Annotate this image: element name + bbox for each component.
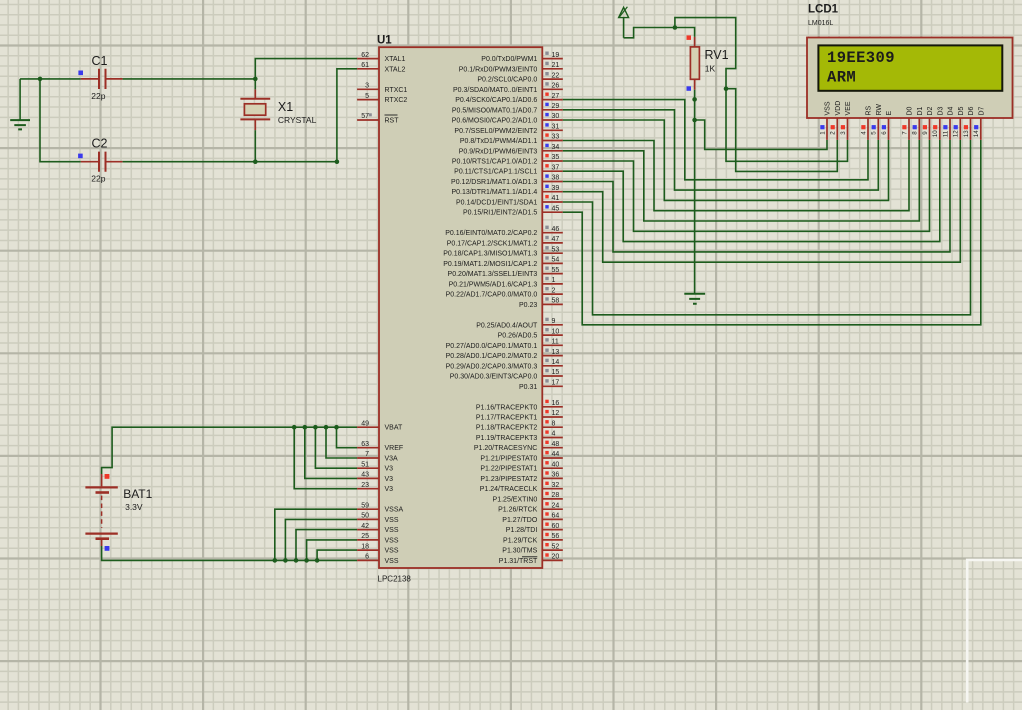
svg-text:13: 13 bbox=[552, 349, 560, 356]
svg-text:14: 14 bbox=[552, 359, 560, 366]
svg-text:8: 8 bbox=[552, 420, 556, 427]
node: crystal bottom junction bbox=[253, 159, 258, 164]
crystal X1 bbox=[240, 89, 316, 130]
svg-text:P1.18/TRACEPKT2: P1.18/TRACEPKT2 bbox=[476, 425, 538, 432]
svg-text:P0.2/SCL0/CAP0.0: P0.2/SCL0/CAP0.0 bbox=[477, 77, 537, 84]
svg-text:RST: RST bbox=[385, 118, 400, 125]
svg-text:11: 11 bbox=[552, 339, 559, 346]
wire: U1 row 6 to LCD E bbox=[563, 120, 889, 200]
svg-text:P1.30/TMS: P1.30/TMS bbox=[502, 548, 537, 555]
svg-text:58: 58 bbox=[552, 298, 560, 305]
svg-text:P0.3/SDA0/MAT0..0/EINT1: P0.3/SDA0/MAT0..0/EINT1 bbox=[453, 87, 537, 94]
svg-text:49: 49 bbox=[361, 420, 369, 427]
svg-text:P0.6/MOSI0/CAP0.2/AD1.0: P0.6/MOSI0/CAP0.2/AD1.0 bbox=[452, 118, 538, 125]
svg-text:61: 61 bbox=[361, 62, 369, 69]
svg-text:20: 20 bbox=[552, 554, 560, 561]
svg-text:16: 16 bbox=[552, 400, 560, 407]
svg-text:BAT1: BAT1 bbox=[123, 487, 152, 501]
svg-text:27: 27 bbox=[552, 93, 560, 100]
svg-text:P0.25/AD0.4/AOUT: P0.25/AD0.4/AOUT bbox=[476, 322, 538, 329]
svg-text:RS: RS bbox=[866, 105, 873, 115]
wire: tap to left pin row 38 bbox=[337, 427, 358, 448]
svg-text:P0.9/RxD1/PWM6/EINT3: P0.9/RxD1/PWM6/EINT3 bbox=[459, 148, 538, 155]
svg-text:64: 64 bbox=[552, 513, 560, 520]
svg-text:60: 60 bbox=[552, 523, 560, 530]
svg-text:48: 48 bbox=[552, 441, 560, 448]
svg-text:D6: D6 bbox=[968, 106, 975, 115]
svg-text:9: 9 bbox=[922, 131, 929, 135]
svg-text:D1: D1 bbox=[917, 106, 924, 115]
svg-text:P0.17/CAP1.2/SCK1/MAT1.2: P0.17/CAP1.2/SCK1/MAT1.2 bbox=[447, 240, 538, 247]
svg-text:P0.23: P0.23 bbox=[519, 302, 537, 309]
svg-text:ARM: ARM bbox=[827, 69, 856, 87]
capacitor C1 bbox=[78, 54, 122, 101]
svg-text:10: 10 bbox=[932, 130, 939, 137]
wire: tap to left pin row 41 bbox=[305, 427, 357, 478]
svg-text:P0.0/TxD0/PWM1: P0.0/TxD0/PWM1 bbox=[481, 56, 537, 63]
svg-text:50: 50 bbox=[361, 513, 369, 520]
junction on VBAT rail bbox=[303, 425, 308, 430]
svg-text:U1: U1 bbox=[377, 34, 392, 46]
node: XTAL2 junction on C2 wire bbox=[335, 159, 340, 164]
svg-text:10: 10 bbox=[552, 328, 560, 335]
svg-text:P0.18/CAP1.3/MISO1/MAT1.3: P0.18/CAP1.3/MISO1/MAT1.3 bbox=[443, 251, 537, 258]
svg-text:57: 57 bbox=[361, 113, 369, 120]
svg-text:XTAL2: XTAL2 bbox=[385, 66, 406, 73]
svg-text:62: 62 bbox=[361, 52, 369, 59]
svg-text:11: 11 bbox=[942, 130, 949, 137]
svg-text:30: 30 bbox=[552, 113, 560, 120]
svg-text:P0.10/RTS1/CAP1.0/AD1.2: P0.10/RTS1/CAP1.0/AD1.2 bbox=[452, 159, 538, 166]
wire: VBAT net from battery + to pin 49 with taps bbox=[102, 427, 358, 474]
wire: tap to left pin row 39 bbox=[326, 427, 357, 458]
junction on VSS rail bbox=[294, 558, 299, 563]
svg-text:VSS: VSS bbox=[825, 101, 832, 115]
svg-text:13: 13 bbox=[963, 130, 970, 137]
svg-text:36: 36 bbox=[552, 472, 560, 479]
svg-text:P0.22/AD1.7/CAP0.0/MAT0.0: P0.22/AD1.7/CAP0.0/MAT0.0 bbox=[446, 292, 538, 299]
svg-text:RTXC2: RTXC2 bbox=[385, 97, 408, 104]
svg-text:12: 12 bbox=[953, 130, 960, 137]
svg-text:32: 32 bbox=[552, 482, 560, 489]
wire: VSS net from battery - to pin 6 with taps bbox=[102, 546, 358, 560]
svg-text:P0.27/AD0.0/CAP0.1/MAT0.1: P0.27/AD0.0/CAP0.1/MAT0.1 bbox=[446, 343, 538, 350]
svg-text:2: 2 bbox=[552, 287, 556, 294]
svg-text:21: 21 bbox=[552, 62, 560, 69]
svg-text:47: 47 bbox=[552, 236, 560, 243]
wire: tap to left pin row 42 bbox=[294, 427, 357, 489]
svg-text:15: 15 bbox=[552, 369, 560, 376]
svg-text:39: 39 bbox=[552, 185, 560, 192]
svg-text:P1.28/TDI: P1.28/TDI bbox=[506, 527, 538, 534]
svg-text:P1.29/TCK: P1.29/TCK bbox=[503, 537, 538, 544]
wire: VCC rail to RV1 top bbox=[624, 28, 695, 38]
svg-text:D3: D3 bbox=[938, 106, 945, 115]
battery BAT1 3.3V bbox=[85, 474, 152, 551]
svg-text:22p: 22p bbox=[91, 174, 105, 184]
svg-text:18: 18 bbox=[361, 543, 369, 550]
junction on VBAT rail bbox=[324, 425, 329, 430]
svg-text:35: 35 bbox=[552, 154, 560, 161]
wire: RV1 bottom to ground bbox=[694, 90, 696, 294]
svg-text:29: 29 bbox=[552, 103, 560, 110]
svg-text:V3: V3 bbox=[385, 476, 394, 483]
svg-text:P0.31: P0.31 bbox=[519, 384, 537, 391]
svg-text:8: 8 bbox=[912, 131, 919, 135]
svg-text:VBAT: VBAT bbox=[385, 425, 403, 432]
wire: junction down to C2 left bbox=[40, 79, 81, 162]
svg-text:RW: RW bbox=[876, 104, 883, 116]
svg-text:LM016L: LM016L bbox=[808, 20, 833, 27]
junction on VBAT rail bbox=[334, 425, 339, 430]
svg-text:19: 19 bbox=[552, 52, 560, 59]
svg-text:VEE: VEE bbox=[845, 101, 852, 115]
wire: tap to LCD pin 1 VSS bbox=[695, 120, 827, 149]
wire: VEE branch (LCD pin 3) bbox=[726, 89, 848, 162]
svg-text:26: 26 bbox=[552, 83, 560, 90]
svg-text:4: 4 bbox=[860, 131, 867, 135]
svg-text:P0.30/AD0.3/EINT3/CAP0.0: P0.30/AD0.3/EINT3/CAP0.0 bbox=[450, 374, 538, 381]
wire: crystal bottom to C2 net bbox=[254, 130, 256, 162]
wire: U1 row 14 to LCD D6 bbox=[563, 140, 971, 315]
node: crystal top junction bbox=[253, 77, 258, 82]
svg-text:X1: X1 bbox=[278, 100, 293, 114]
junction on VSS rail bbox=[315, 558, 320, 563]
sheet border (white) bbox=[967, 560, 1022, 703]
wire: tap to left pin row 46 bbox=[296, 530, 357, 561]
svg-text:45: 45 bbox=[552, 205, 560, 212]
svg-text:V3: V3 bbox=[385, 466, 394, 473]
svg-text:D2: D2 bbox=[927, 106, 934, 115]
wire: XTAL1 net (pin 62 to crystal top / C1) bbox=[255, 59, 357, 90]
svg-text:40: 40 bbox=[552, 461, 560, 468]
svg-text:14: 14 bbox=[973, 130, 980, 137]
svg-text:22: 22 bbox=[552, 72, 560, 79]
svg-text:P0.26/AD0.5: P0.26/AD0.5 bbox=[498, 333, 538, 340]
svg-text:P0.28/AD0.1/CAP0.2/MAT0.2: P0.28/AD0.1/CAP0.2/MAT0.2 bbox=[446, 353, 538, 360]
svg-text:P0.29/AD0.2/CAP0.3/MAT0.3: P0.29/AD0.2/CAP0.3/MAT0.3 bbox=[446, 363, 538, 370]
svg-text:VSS: VSS bbox=[385, 517, 399, 524]
wire: tap to left pin row 44 bbox=[275, 509, 357, 560]
svg-text:VSS: VSS bbox=[385, 548, 399, 555]
wire: XTAL2 net (pin 61 to C2 net) bbox=[337, 69, 357, 162]
svg-text:41: 41 bbox=[552, 195, 560, 202]
svg-text:P0.20/MAT1.3/SSEL1/EINT3: P0.20/MAT1.3/SSEL1/EINT3 bbox=[448, 271, 538, 278]
svg-text:51: 51 bbox=[361, 461, 369, 468]
svg-text:P0.8/TxD1/PWM4/AD1.1: P0.8/TxD1/PWM4/AD1.1 bbox=[460, 138, 538, 145]
svg-text:3: 3 bbox=[365, 83, 369, 90]
U1 right pins: stubs, numbers, state squares, names bbox=[443, 52, 563, 565]
svg-text:7: 7 bbox=[365, 451, 369, 458]
junction on VBAT rail bbox=[313, 425, 318, 430]
wire: U1 row 11 to LCD D3 bbox=[563, 140, 940, 242]
svg-text:P0.19/MAT1.2/MOSI1/CAP1.2: P0.19/MAT1.2/MOSI1/CAP1.2 bbox=[443, 261, 537, 268]
LCD1 pins: stubs, rotated names, numbers, state squares bbox=[819, 101, 985, 140]
svg-text:P0.13/DTR1/MAT1.1/AD1.4: P0.13/DTR1/MAT1.1/AD1.4 bbox=[451, 189, 537, 196]
junction on VBAT rail bbox=[292, 425, 297, 430]
svg-text:43: 43 bbox=[361, 472, 369, 479]
svg-text:54: 54 bbox=[552, 257, 560, 264]
svg-text:28: 28 bbox=[552, 492, 560, 499]
svg-text:P1.19/TRACEPKT3: P1.19/TRACEPKT3 bbox=[476, 435, 538, 442]
svg-text:2: 2 bbox=[830, 131, 837, 135]
svg-text:44: 44 bbox=[552, 451, 560, 458]
svg-text:P1.20/TRACESYNC: P1.20/TRACESYNC bbox=[474, 445, 537, 452]
svg-text:VSS: VSS bbox=[385, 537, 399, 544]
wire: U1 row 9 to LCD D1 bbox=[563, 140, 920, 221]
svg-text:53: 53 bbox=[552, 246, 560, 253]
svg-text:P0.21/PWM5/AD1.6/CAP1.3: P0.21/PWM5/AD1.6/CAP1.3 bbox=[449, 281, 538, 288]
svg-text:P1.23/PIPESTAT2: P1.23/PIPESTAT2 bbox=[480, 476, 537, 483]
svg-text:12: 12 bbox=[552, 410, 560, 417]
wire: C1 to crystal node bbox=[123, 78, 256, 80]
wire: U1 row 12 to LCD D4 bbox=[563, 140, 950, 252]
svg-text:23: 23 bbox=[361, 482, 369, 489]
svg-text:C2: C2 bbox=[92, 137, 108, 151]
svg-text:55: 55 bbox=[552, 267, 560, 274]
svg-text:VSS: VSS bbox=[385, 527, 399, 534]
svg-text:P1.22/PIPESTAT1: P1.22/PIPESTAT1 bbox=[480, 466, 537, 473]
svg-text:52: 52 bbox=[552, 543, 560, 550]
svg-text:D7: D7 bbox=[979, 106, 986, 115]
svg-text:RTXC1: RTXC1 bbox=[385, 87, 408, 94]
svg-text:1: 1 bbox=[819, 131, 826, 135]
svg-text:P1.26/RTCK: P1.26/RTCK bbox=[498, 507, 537, 514]
svg-text:CRYSTAL: CRYSTAL bbox=[278, 115, 317, 125]
svg-text:P1.24/TRACECLK: P1.24/TRACECLK bbox=[480, 486, 538, 493]
svg-text:9: 9 bbox=[552, 318, 556, 325]
resistor RV1 1K bbox=[687, 35, 729, 90]
svg-text:25: 25 bbox=[361, 533, 369, 540]
svg-text:P1.31/TRST: P1.31/TRST bbox=[499, 558, 538, 565]
svg-text:VDD: VDD bbox=[835, 101, 842, 116]
wire: U1 row 10 to LCD D2 bbox=[563, 140, 930, 231]
wire: U1 row 5 to LCD RW bbox=[563, 110, 879, 190]
wire: tap to left pin row 45 bbox=[285, 519, 357, 560]
svg-text:33: 33 bbox=[552, 134, 560, 141]
svg-text:3: 3 bbox=[840, 131, 847, 135]
svg-text:P0.1/RxD0/PWM3/EINT0: P0.1/RxD0/PWM3/EINT0 bbox=[459, 66, 538, 73]
svg-text:P0.5/MISO0/MAT0.1/AD0.7: P0.5/MISO0/MAT0.1/AD0.7 bbox=[452, 107, 538, 114]
capacitor C2 bbox=[78, 137, 123, 184]
svg-text:D5: D5 bbox=[958, 106, 965, 115]
svg-text:VREF: VREF bbox=[385, 445, 404, 452]
wire: ground to C1 left plate bbox=[20, 78, 81, 80]
svg-text:17: 17 bbox=[552, 380, 560, 387]
svg-text:C1: C1 bbox=[92, 54, 108, 68]
svg-text:37: 37 bbox=[552, 164, 560, 171]
svg-text:LPC2138: LPC2138 bbox=[378, 575, 412, 584]
svg-text:P0.15/RI1/EINT2/AD1.5: P0.15/RI1/EINT2/AD1.5 bbox=[463, 210, 537, 217]
svg-text:VSSA: VSSA bbox=[385, 507, 404, 514]
svg-text:XTAL1: XTAL1 bbox=[385, 56, 406, 63]
wire: U1 row 4 to LCD RS bbox=[563, 100, 868, 180]
wire: C2 to crystal bottom / XTAL2 node bbox=[123, 161, 337, 163]
LCD screen bbox=[818, 45, 1002, 90]
wire: U1 row 13 to LCD D5 bbox=[563, 140, 961, 262]
wire: VDD branch (LCD pin 2) bbox=[726, 89, 837, 172]
svg-text:VSS: VSS bbox=[385, 558, 399, 565]
svg-text:P1.16/TRACEPKT0: P1.16/TRACEPKT0 bbox=[476, 404, 538, 411]
svg-text:56: 56 bbox=[552, 533, 560, 540]
junction on VCC rail bbox=[673, 25, 678, 30]
svg-text:P1.17/TRACEPKT1: P1.17/TRACEPKT1 bbox=[476, 415, 538, 422]
svg-text:24: 24 bbox=[552, 502, 560, 509]
junction VDD/VEE split bbox=[724, 86, 729, 91]
junction on VSS rail bbox=[304, 558, 309, 563]
svg-text:42: 42 bbox=[361, 523, 369, 530]
op: microcontroller U1 LPC2138 body bbox=[379, 47, 542, 568]
junction node at ground/C1/C2 bbox=[38, 77, 43, 82]
junction on VSS rail bbox=[273, 558, 278, 563]
svg-text:P0.14/DCD1/EINT1/SDA1: P0.14/DCD1/EINT1/SDA1 bbox=[456, 200, 537, 207]
svg-text:E: E bbox=[886, 111, 893, 116]
svg-text:5: 5 bbox=[365, 93, 369, 100]
svg-text:P0.4/SCK0/CAP0.1/AD0.6: P0.4/SCK0/CAP0.1/AD0.6 bbox=[455, 97, 537, 104]
svg-text:34: 34 bbox=[552, 144, 560, 151]
wire: U1 row 8 to LCD D0 bbox=[563, 140, 909, 211]
svg-text:P0.12/DSR1/MAT1.0/AD1.3: P0.12/DSR1/MAT1.0/AD1.3 bbox=[451, 179, 537, 186]
svg-text:RV1: RV1 bbox=[705, 48, 729, 62]
svg-text:6: 6 bbox=[365, 554, 369, 561]
svg-text:19EE309: 19EE309 bbox=[827, 49, 895, 67]
U1 left pins: stubs, numbers, names bbox=[357, 52, 407, 565]
svg-text:6: 6 bbox=[881, 131, 888, 135]
svg-text:3.3V: 3.3V bbox=[125, 502, 143, 512]
svg-text:V3A: V3A bbox=[385, 456, 399, 463]
svg-text:LCD1: LCD1 bbox=[808, 4, 839, 16]
wire: tap to left pin row 48 bbox=[317, 550, 357, 560]
ground (below RV1) bbox=[684, 294, 705, 304]
svg-text:V3: V3 bbox=[385, 486, 394, 493]
svg-text:7: 7 bbox=[901, 131, 908, 135]
node: dot on RV1/ground line (row 27 level) bbox=[692, 97, 697, 102]
svg-text:D4: D4 bbox=[948, 106, 955, 115]
svg-text:38: 38 bbox=[552, 175, 560, 182]
svg-text:P0.7/SSEL0/PWM2/EINT2: P0.7/SSEL0/PWM2/EINT2 bbox=[454, 128, 537, 135]
wire: U1 row 15 to LCD D7 bbox=[563, 140, 981, 325]
wire: tap to left pin row 40 bbox=[315, 427, 357, 468]
svg-text:1K: 1K bbox=[705, 64, 716, 74]
svg-text:5: 5 bbox=[871, 131, 878, 135]
svg-text:1: 1 bbox=[552, 277, 556, 284]
svg-text:D0: D0 bbox=[907, 106, 914, 115]
junction on VSS rail bbox=[283, 558, 288, 563]
svg-text:P1.21/PIPESTAT0: P1.21/PIPESTAT0 bbox=[480, 456, 537, 463]
ground (left, C1/C2 net) bbox=[10, 79, 30, 129]
wire: VCC branch over RV1 to VDD/VEE bbox=[675, 18, 736, 89]
wire: tap to left pin row 47 bbox=[307, 540, 358, 561]
svg-text:63: 63 bbox=[361, 441, 369, 448]
power symbol VCC (arrow) bbox=[619, 7, 629, 38]
svg-text:P1.25/EXTIN0: P1.25/EXTIN0 bbox=[493, 496, 538, 503]
svg-text:P0.11/CTS1/CAP1.1/SCL1: P0.11/CTS1/CAP1.1/SCL1 bbox=[454, 169, 537, 176]
svg-text:46: 46 bbox=[552, 226, 560, 233]
svg-text:4: 4 bbox=[552, 431, 556, 438]
svg-text:31: 31 bbox=[552, 124, 560, 131]
svg-text:P0.16/EINT0/MAT0.2/CAP0.2: P0.16/EINT0/MAT0.2/CAP0.2 bbox=[445, 230, 537, 237]
LCD display LCD1 LM016L body bbox=[807, 38, 1013, 119]
svg-text:22p: 22p bbox=[91, 91, 105, 101]
svg-text:P1.27/TDO: P1.27/TDO bbox=[502, 517, 538, 524]
svg-text:59: 59 bbox=[361, 502, 369, 509]
node: VSS tap junction bbox=[692, 118, 697, 123]
